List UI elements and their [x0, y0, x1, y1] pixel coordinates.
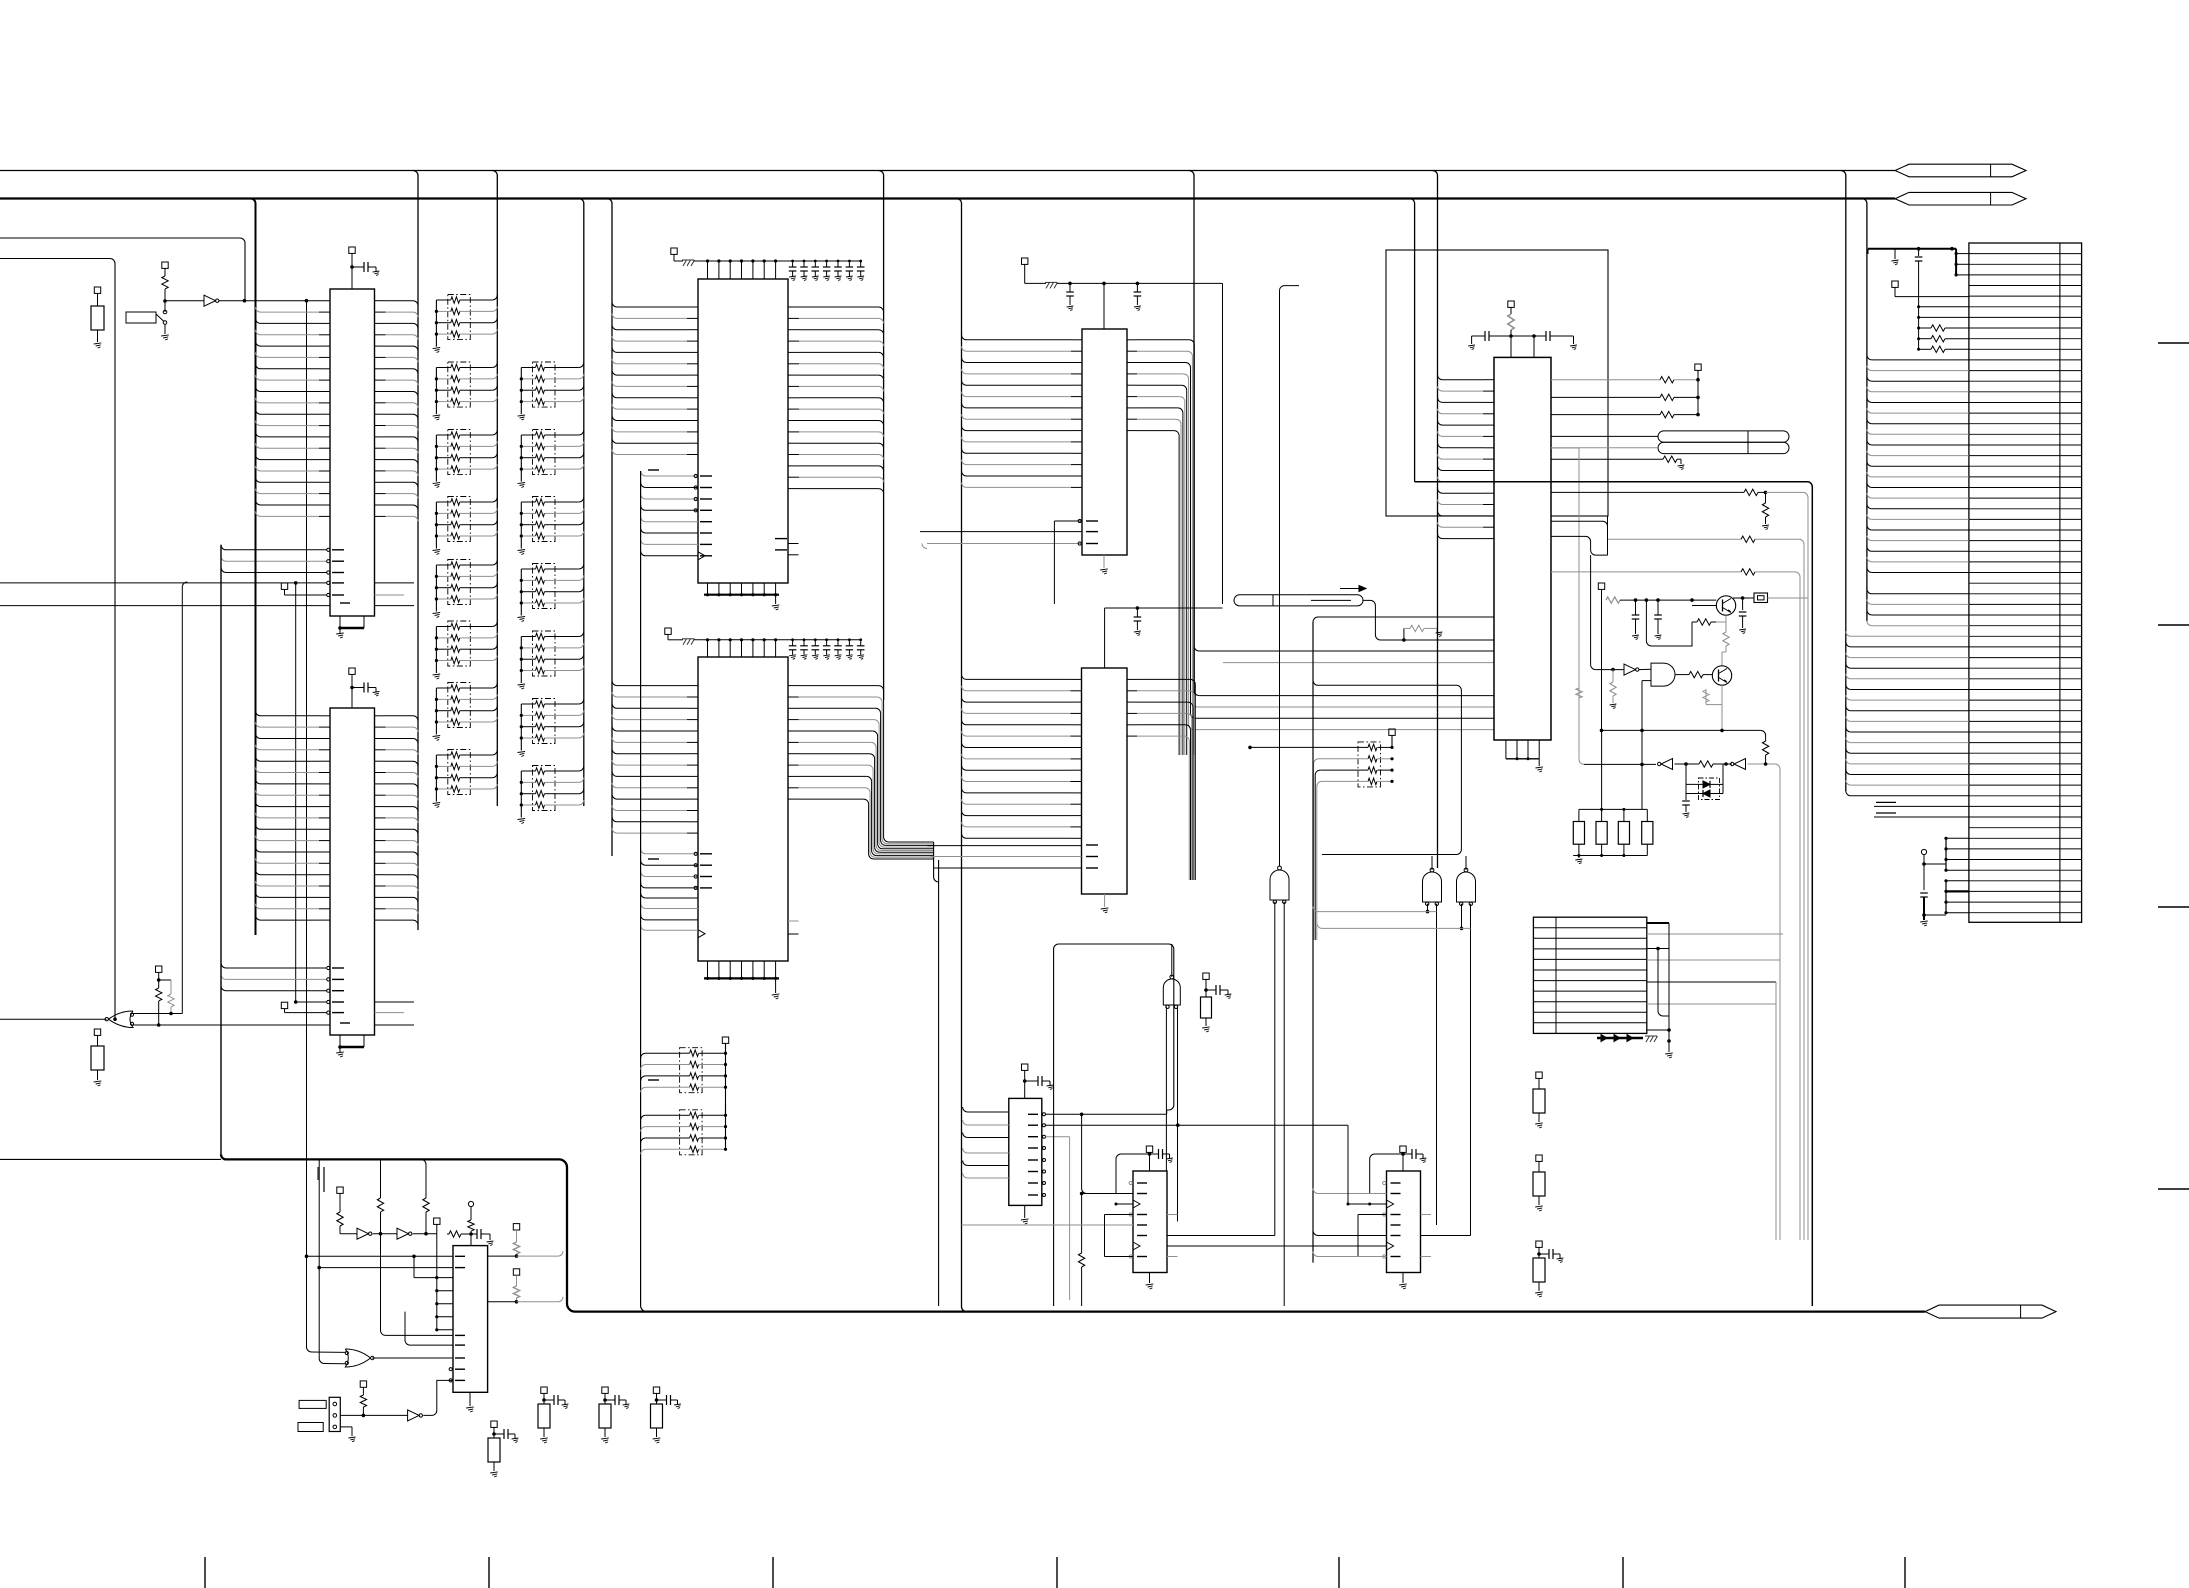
right alignment tick 2: [2158, 624, 2189, 626]
pull-up + inverter U18 on jumper net: [340, 1414, 407, 1416]
IC U5 bottom pin rail to ground: [707, 961, 709, 978]
resistor on x426: [421, 1159, 426, 1198]
U17 bottom stub: [469, 1392, 471, 1406]
resistor R13 with cap: [541, 1387, 547, 1393]
wire U9 to capsules: [1551, 435, 1658, 437]
crystal drive network terminal: [1598, 583, 1604, 589]
U4 top pin rail with decoupling caps: [694, 260, 861, 262]
IC U8 left pin bundle: [963, 1107, 968, 1112]
off-page connector arrow 2: [1895, 192, 2026, 205]
CN1 bundle B (from bus x1843): [1846, 631, 1851, 636]
wire U9 row y470 (gray down): [1551, 447, 1579, 449]
wire top bus line 2 (bold): [0, 197, 1895, 199]
power VCC U9 with filter: [1508, 301, 1514, 307]
connector CN1 (pin table): [1969, 243, 2082, 922]
IC U4 left pin bundle: [612, 302, 617, 307]
NAND gate G4: [1270, 870, 1289, 900]
wire U13 right pins: [1167, 1214, 1178, 1216]
transistor Q1: [1716, 596, 1735, 615]
IC U2 control pin wires from left: [0, 582, 327, 584]
jumper connector J1: [329, 1397, 340, 1431]
IC U3 bottom ground bracket: [339, 1035, 341, 1047]
bottom alignment tick 3: [772, 1557, 774, 1588]
wire G1 input net 1: [132, 1013, 183, 1015]
fuse F1: [1754, 593, 1768, 603]
IC U5 right pin bundle (z-jog): [788, 685, 799, 687]
wire to gray bus: [1748, 763, 1776, 765]
NAND gate G6: [1457, 872, 1476, 902]
resistor network RN22 (mirrored, center-right): [1358, 742, 1381, 787]
wire left feeder of bottom bus: [0, 1158, 221, 1160]
resistor network RN3 (column 1): [448, 362, 471, 407]
capacitor C4: [1657, 600, 1659, 615]
IC U2 bottom ground bracket: [339, 616, 341, 628]
stepper/connector grid block: [1533, 917, 1646, 1033]
CN1 bottom group: [1921, 849, 1926, 854]
IC U3 right pin bundle: [375, 715, 386, 717]
wire loop via x1461: [1313, 680, 1461, 854]
wire U13 vcc link left: [1116, 1154, 1150, 1194]
box outline region A: [1386, 250, 1608, 516]
wire vertical x182 to IC A control: [182, 582, 187, 1014]
wire into U13 rows from far left: [962, 1224, 1134, 1226]
wire top bus line 1: [0, 170, 1895, 172]
IC U17 (sub controller): [453, 1246, 488, 1393]
wire inverter output to IC A pin 1: [219, 300, 330, 302]
bottom alignment tick 7: [1904, 1557, 1906, 1588]
IC U2 lower-left control pins: [221, 545, 226, 550]
box outline loop around U8/NAND: [1054, 944, 1174, 1110]
wire from bus to G5: [1313, 907, 1437, 912]
tick marks near bus corner: [323, 1167, 325, 1192]
resistor R5 (feedback): [1697, 619, 1711, 625]
IC U3 control pin wires from left: [294, 1000, 298, 1004]
bottom alignment tick 2: [488, 1557, 490, 1588]
capacitor C3: [1635, 600, 1637, 615]
CN1 bundle A (from bus x1866): [1867, 355, 1872, 360]
terminal + resistor chain (inverter pair): [337, 1187, 343, 1193]
wire top line 3: [0, 238, 245, 301]
IC U9 bottom pins: [1505, 740, 1507, 759]
right alignment tick 4: [2158, 1188, 2189, 1190]
resistor network RN11 (column 2): [533, 430, 556, 475]
U17 pin bus left: [434, 1218, 440, 1224]
IC U2 left pin bundle: [256, 307, 261, 312]
net label capsule 1 (center): [1234, 595, 1363, 606]
IC U2 (buffer/driver) top-left: [330, 289, 375, 616]
resistor network RN10 (column 2): [533, 362, 556, 407]
IC U4 lower-left control bundle: [641, 471, 646, 476]
resistor network RN7 (column 1): [448, 621, 471, 666]
bold bus corner to bottom: [221, 1154, 1925, 1311]
switch S1: [126, 312, 156, 323]
wire osc feedback: [1646, 600, 1692, 646]
power VCC U13: [1146, 1146, 1152, 1152]
IC U5 left pin bundle: [612, 681, 617, 686]
wire IC J feed 1: [305, 1255, 309, 1259]
IC U4 right lower stubs: [788, 543, 799, 545]
IC U6 left pin bundle: [962, 335, 967, 340]
resistor to ground (gray): [1612, 670, 1614, 682]
U14 left pins: [1391, 1182, 1401, 1184]
wire U9 row with ground resistor: [1551, 458, 1663, 460]
IC U7 lower-left control pins: [1086, 844, 1098, 846]
IC U7 (transceiver) mid-center: [1082, 668, 1128, 894]
wire row y662: [1223, 662, 1494, 664]
power VCC U3 with capacitor C2: [349, 668, 355, 674]
wire G3 input 2: [1642, 680, 1651, 682]
driver transistors row: [1597, 1037, 1643, 1039]
resistor network RN9 (column 1): [448, 750, 471, 795]
CN1 vcc square: [1892, 281, 1898, 287]
wire U9 staircase rows: [1551, 536, 1608, 555]
bottom alignment tick 6: [1622, 1557, 1624, 1588]
IC U3 left pin bundle: [255, 528, 257, 935]
vertical x1081 to bottom bus with resistor: [1081, 1194, 1083, 1254]
grid block right wires: [1647, 922, 1669, 924]
wire vertical x319: [318, 1159, 320, 1358]
inverter U15: [357, 1228, 369, 1239]
wire inverter row y764: [1584, 763, 1656, 765]
transistor Q2: [1712, 666, 1731, 685]
diode pair D1 D2 (dash box): [1699, 778, 1720, 800]
wire lower-left control bus x221: [220, 545, 222, 1155]
wire net y730: [1602, 729, 1761, 731]
resistor network RN21 (mirrored): [680, 1110, 703, 1155]
wire U9 row y572 with resistor: [1551, 571, 1741, 573]
wire control bus x640 (column 3): [641, 471, 647, 1312]
resistor network RN20 (mirrored): [680, 1048, 703, 1093]
U5 clock wedge: [698, 930, 705, 938]
IC U8 right pins: [1028, 1113, 1038, 1115]
resistor bank RB1 (4 vertical): [1579, 808, 1647, 810]
open terminal + resistor above U17: [468, 1201, 473, 1206]
wire G4 inputs: [1274, 902, 1276, 1236]
IC U9 (main controller): [1494, 357, 1551, 740]
jumper pin3 to ground: [340, 1426, 352, 1428]
IC U4 (latch) upper-center-left: [698, 279, 788, 583]
wire vertical x295 (IC A to IC B control): [295, 583, 297, 1002]
pull-up resistor pair RN1: [156, 966, 162, 972]
power terminal U4: [671, 248, 677, 254]
right alignment tick 1: [2158, 342, 2189, 344]
wire into U14 from bus 1313 (arcs): [1313, 1189, 1318, 1194]
resistor R7: [1762, 741, 1768, 755]
IC U4 right pin bundle: [788, 306, 799, 308]
IC U5 right lower stubs: [788, 920, 799, 922]
IC U6 lower-left control pins: [1086, 520, 1098, 522]
resistor on x380: [380, 1159, 382, 1198]
resistor network RN6 (column 1): [448, 560, 471, 605]
IC U2 right pin bundle: [375, 300, 386, 302]
power rail U7 with cap: [1104, 608, 1106, 668]
IC U4 bottom pin rail to ground: [707, 583, 709, 595]
right alignment tick 3: [2158, 906, 2189, 908]
inverter U11 (left facing): [1661, 759, 1673, 770]
resistor network RN15 (column 2): [533, 699, 556, 744]
CN1 short stub rows: [1874, 805, 1969, 807]
resistor network RN4 (column 1): [448, 430, 471, 475]
bottom alignment tick 1: [204, 1557, 206, 1588]
resistor network RN8 (column 1): [448, 683, 471, 728]
pull resistor on net (gray): [1403, 628, 1405, 640]
wire feeds upper: [413, 1256, 415, 1277]
wire vertical bus x418 (from line1): [413, 171, 418, 931]
wire into U13 from left: [1082, 1193, 1133, 1195]
IC U13 (flip-flop): [1133, 1171, 1167, 1273]
wire U14 right pins: [1421, 1214, 1432, 1216]
wire bus x933 lower: [933, 842, 935, 877]
wire G1 output to left edge: [0, 1018, 107, 1020]
U5 top pin rail with decoupling caps: [694, 639, 861, 641]
resistor network RN12 (column 2): [533, 497, 556, 542]
NOR gate G7: [345, 1349, 370, 1367]
wire U14 vcc link left: [1370, 1154, 1403, 1194]
power VCC U8 with capacitor: [1022, 1064, 1028, 1070]
wire vertical bus x497 (from line2): [492, 171, 497, 807]
IC U7 bottom stub and ground: [1104, 894, 1106, 907]
ferrite/ground hatch U4: [683, 260, 687, 266]
series resistor R8: [1675, 763, 1700, 765]
power rail U6 with caps: [1022, 258, 1028, 264]
wire vertical x1222 (rail link): [1222, 283, 1224, 604]
IC U6 right pin bundle (z-jog down): [1127, 339, 1137, 341]
off-page connector arrow 3 (bottom): [1925, 1305, 2056, 1318]
resistor network RN16 (column 2): [533, 766, 556, 811]
U17 pin dashes: [455, 1255, 465, 1257]
resistor R4 with terminal and capacitor: [1203, 973, 1209, 979]
NOR gate G1 (mirrored): [109, 1011, 134, 1028]
resistor R10: [1536, 1155, 1542, 1161]
wire U9 right rows with resistors to VCC: [1695, 364, 1701, 370]
inverter U16: [397, 1228, 409, 1239]
wire G5 G6 inputs: [1427, 904, 1429, 912]
wire capsule to IC G: [1363, 600, 1494, 640]
wire U8 output row 3 (gray): [1046, 1136, 1070, 1138]
wire Q2 emitter down: [1721, 685, 1723, 704]
grid feed verticals: [1775, 982, 1777, 1240]
resistor R3 with terminal (lower left): [94, 1029, 100, 1035]
resistor R12 with cap: [491, 1421, 497, 1427]
IC U6 (transceiver) upper-center: [1082, 329, 1127, 555]
wire top line 4: [0, 259, 115, 1020]
IC U3 right lower stubs: [375, 1001, 415, 1003]
IC U3 lower-left control pins: [221, 963, 226, 968]
IC U6 bottom stub and ground: [1103, 555, 1105, 568]
wire G2 input verticals: [1165, 1007, 1167, 1257]
wire from bus to G6: [1317, 923, 1471, 928]
bottom alignment tick 5: [1338, 1557, 1340, 1588]
wire G1 input net 2: [132, 1024, 331, 1026]
inverter U12 (left facing): [1734, 759, 1746, 770]
wire vertical x306 (IC A col to OR gate): [306, 301, 308, 1347]
IC U8 bottom stub and ground: [1024, 1206, 1026, 1219]
wire row y617: [1313, 617, 1494, 622]
resistor R9: [1536, 1072, 1542, 1078]
resistor to ground on y493 net: [1765, 492, 1767, 503]
IC U5 (latch) lower-center-left: [698, 657, 788, 961]
wire IC J feed 2: [317, 1266, 321, 1270]
arrow marker: [1340, 588, 1366, 590]
wire vertical x1054: [1053, 521, 1055, 604]
IC U3 (buffer/driver) mid-left: [330, 708, 375, 1035]
IC U2 right lower stubs: [375, 582, 415, 584]
pull-up resistor R2 with terminal: [162, 262, 168, 268]
CN1 power cluster: [1868, 248, 1956, 250]
resistor network RN2 (column 1): [448, 295, 471, 340]
wire vertical bus x884 (from line1): [879, 171, 884, 701]
wire vertical bus x1313: [1312, 622, 1314, 1263]
wire U9 row y493 with series resistor: [1551, 491, 1744, 493]
wire vertical bus x612 (from line2): [607, 199, 612, 857]
IC U5 lower-left control bundle: [641, 849, 646, 854]
IC U14 (flip-flop): [1387, 1171, 1421, 1273]
off-page connector arrow 1: [1895, 164, 2026, 177]
resistor network RN13 (column 2): [533, 564, 556, 609]
IC U8 (mux) center-bottom: [1009, 1098, 1042, 1205]
U14 bottom ground: [1402, 1273, 1404, 1284]
bottom alignment tick 4: [1056, 1557, 1058, 1588]
wire Q1 emitter chain to Q2: [1725, 615, 1727, 622]
CN1 resistor rows: [1918, 261, 1920, 349]
wire U9 row y539 with resistor: [1608, 538, 1742, 540]
U17 right side resistors: [513, 1224, 519, 1230]
wire row y651: [1194, 646, 1494, 651]
wire U8 output row 1: [1046, 1113, 1167, 1115]
wire vertical bus x255 (bold from line2): [251, 199, 256, 529]
power VCC U14: [1400, 1146, 1406, 1152]
resistor R15 with cap: [653, 1387, 659, 1393]
wire U9 row y521 corner down: [1551, 521, 1608, 555]
buffer U1 (inverter): [165, 300, 204, 302]
power VCC U2 with capacitor C1: [349, 247, 355, 253]
IC U7 right pin bundle: [1127, 678, 1137, 680]
resistor network RN5 (column 1): [448, 497, 471, 542]
NAND gate G5: [1423, 872, 1442, 902]
NAND gate G2 (vertical): [1163, 979, 1180, 1005]
IC U9 left pin bundle: [1433, 171, 1438, 869]
wire vertical bus x961 (from line2): [957, 199, 967, 1312]
wire vertical bus x1194 (from line1): [1189, 171, 1194, 756]
resistor R1 (boxed) with terminal: [94, 287, 100, 293]
U13 bottom ground: [1149, 1273, 1151, 1284]
capacitor C5: [1685, 794, 1687, 801]
net capsule pair right: [1658, 431, 1789, 442]
wire vertical x1414: [1410, 199, 1415, 482]
wire vertical bus x584 (from line2): [579, 199, 584, 807]
IC U7 left pin bundle: [962, 674, 967, 679]
U4 clock wedge: [698, 552, 705, 560]
inverter U10: [1590, 555, 1592, 665]
resistor R14 with cap: [602, 1387, 608, 1393]
wire U8 output row 2: [1046, 1124, 1349, 1126]
wire vertical bus x1866 (from line2): [1862, 199, 1867, 622]
resistor network RN14 (column 2): [533, 631, 556, 676]
power terminal U5: [665, 628, 671, 634]
wire Q1 collector: [1733, 597, 1743, 599]
ferrite/ground hatch U5: [683, 639, 687, 645]
AND gate G3: [1651, 663, 1675, 686]
resistor R11 with capacitor: [1536, 1241, 1542, 1247]
resistor R6 Q2 base: [1675, 674, 1689, 676]
wire vertical bus x1843 (from line1): [1841, 171, 1846, 792]
U13 left pins: [1137, 1182, 1147, 1184]
